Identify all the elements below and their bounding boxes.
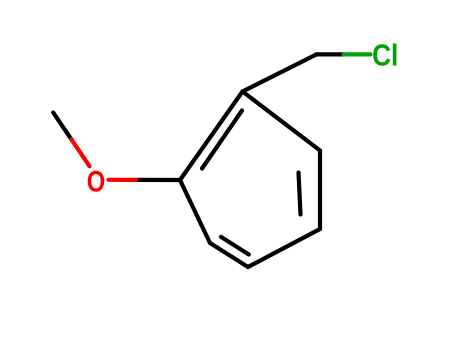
benzene ring edge L-T — [180, 92, 243, 181]
benzene ring double bond inner line R-BR — [299, 173, 301, 215]
benzene ring edge BR-B — [248, 229, 320, 267]
bond CH3 to O red half — [71, 139, 89, 166]
svg-text:O: O — [87, 165, 105, 198]
benzene ring edge R-BR — [318, 151, 322, 230]
benzene ring double bond inner line B-BL — [221, 237, 249, 255]
bond O to ring L red half — [109, 178, 140, 182]
svg-text:Cl: Cl — [372, 39, 398, 73]
bond CH3 to O black half — [53, 113, 71, 140]
benzene ring edge T-R — [243, 92, 321, 151]
bond CH2 to Cl green half — [344, 52, 371, 56]
benzene ring double bond inner line L-T — [202, 111, 242, 169]
bond ring T to CH2 — [243, 54, 317, 91]
bond O to ring L black half — [140, 178, 181, 182]
bond CH2 to Cl black half — [317, 52, 344, 56]
benzene ring edge B-BL — [210, 243, 248, 267]
benzene ring edge BL-L — [180, 180, 210, 243]
